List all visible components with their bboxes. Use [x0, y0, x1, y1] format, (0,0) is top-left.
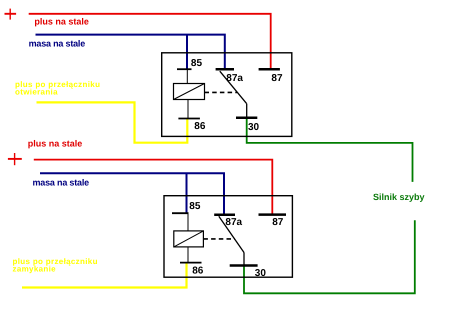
svg-text:86: 86 — [192, 265, 204, 276]
svg-text:otwierania: otwierania — [15, 88, 58, 97]
svg-text:87: 87 — [272, 217, 284, 228]
svg-text:85: 85 — [191, 58, 203, 69]
svg-text:87a: 87a — [226, 73, 243, 84]
svg-text:masa na stale: masa na stale — [33, 178, 90, 188]
svg-text:Silnik szyby: Silnik szyby — [373, 192, 425, 202]
svg-text:30: 30 — [255, 268, 267, 279]
svg-text:85: 85 — [189, 201, 201, 212]
svg-text:87: 87 — [271, 73, 283, 84]
svg-text:plus na stale: plus na stale — [34, 17, 89, 27]
svg-text:30: 30 — [248, 122, 260, 133]
svg-text:87a: 87a — [225, 217, 242, 228]
svg-text:86: 86 — [194, 121, 206, 132]
svg-text:masa na stale: masa na stale — [29, 38, 86, 48]
svg-text:plus na stale: plus na stale — [28, 139, 83, 149]
svg-text:zamykanie: zamykanie — [13, 264, 57, 273]
